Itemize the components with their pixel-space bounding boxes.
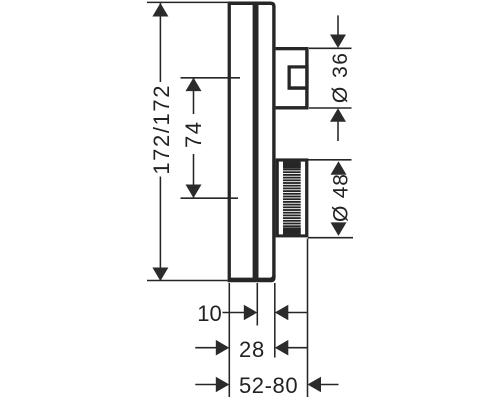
- svg-text:52-80: 52-80: [239, 373, 298, 398]
- svg-text:10: 10: [197, 301, 221, 326]
- svg-text:Ø 36: Ø 36: [329, 52, 352, 104]
- svg-text:Ø 48: Ø 48: [329, 173, 352, 222]
- svg-text:28: 28: [239, 337, 265, 362]
- svg-text:74: 74: [181, 121, 206, 148]
- svg-text:172/172: 172/172: [149, 84, 174, 175]
